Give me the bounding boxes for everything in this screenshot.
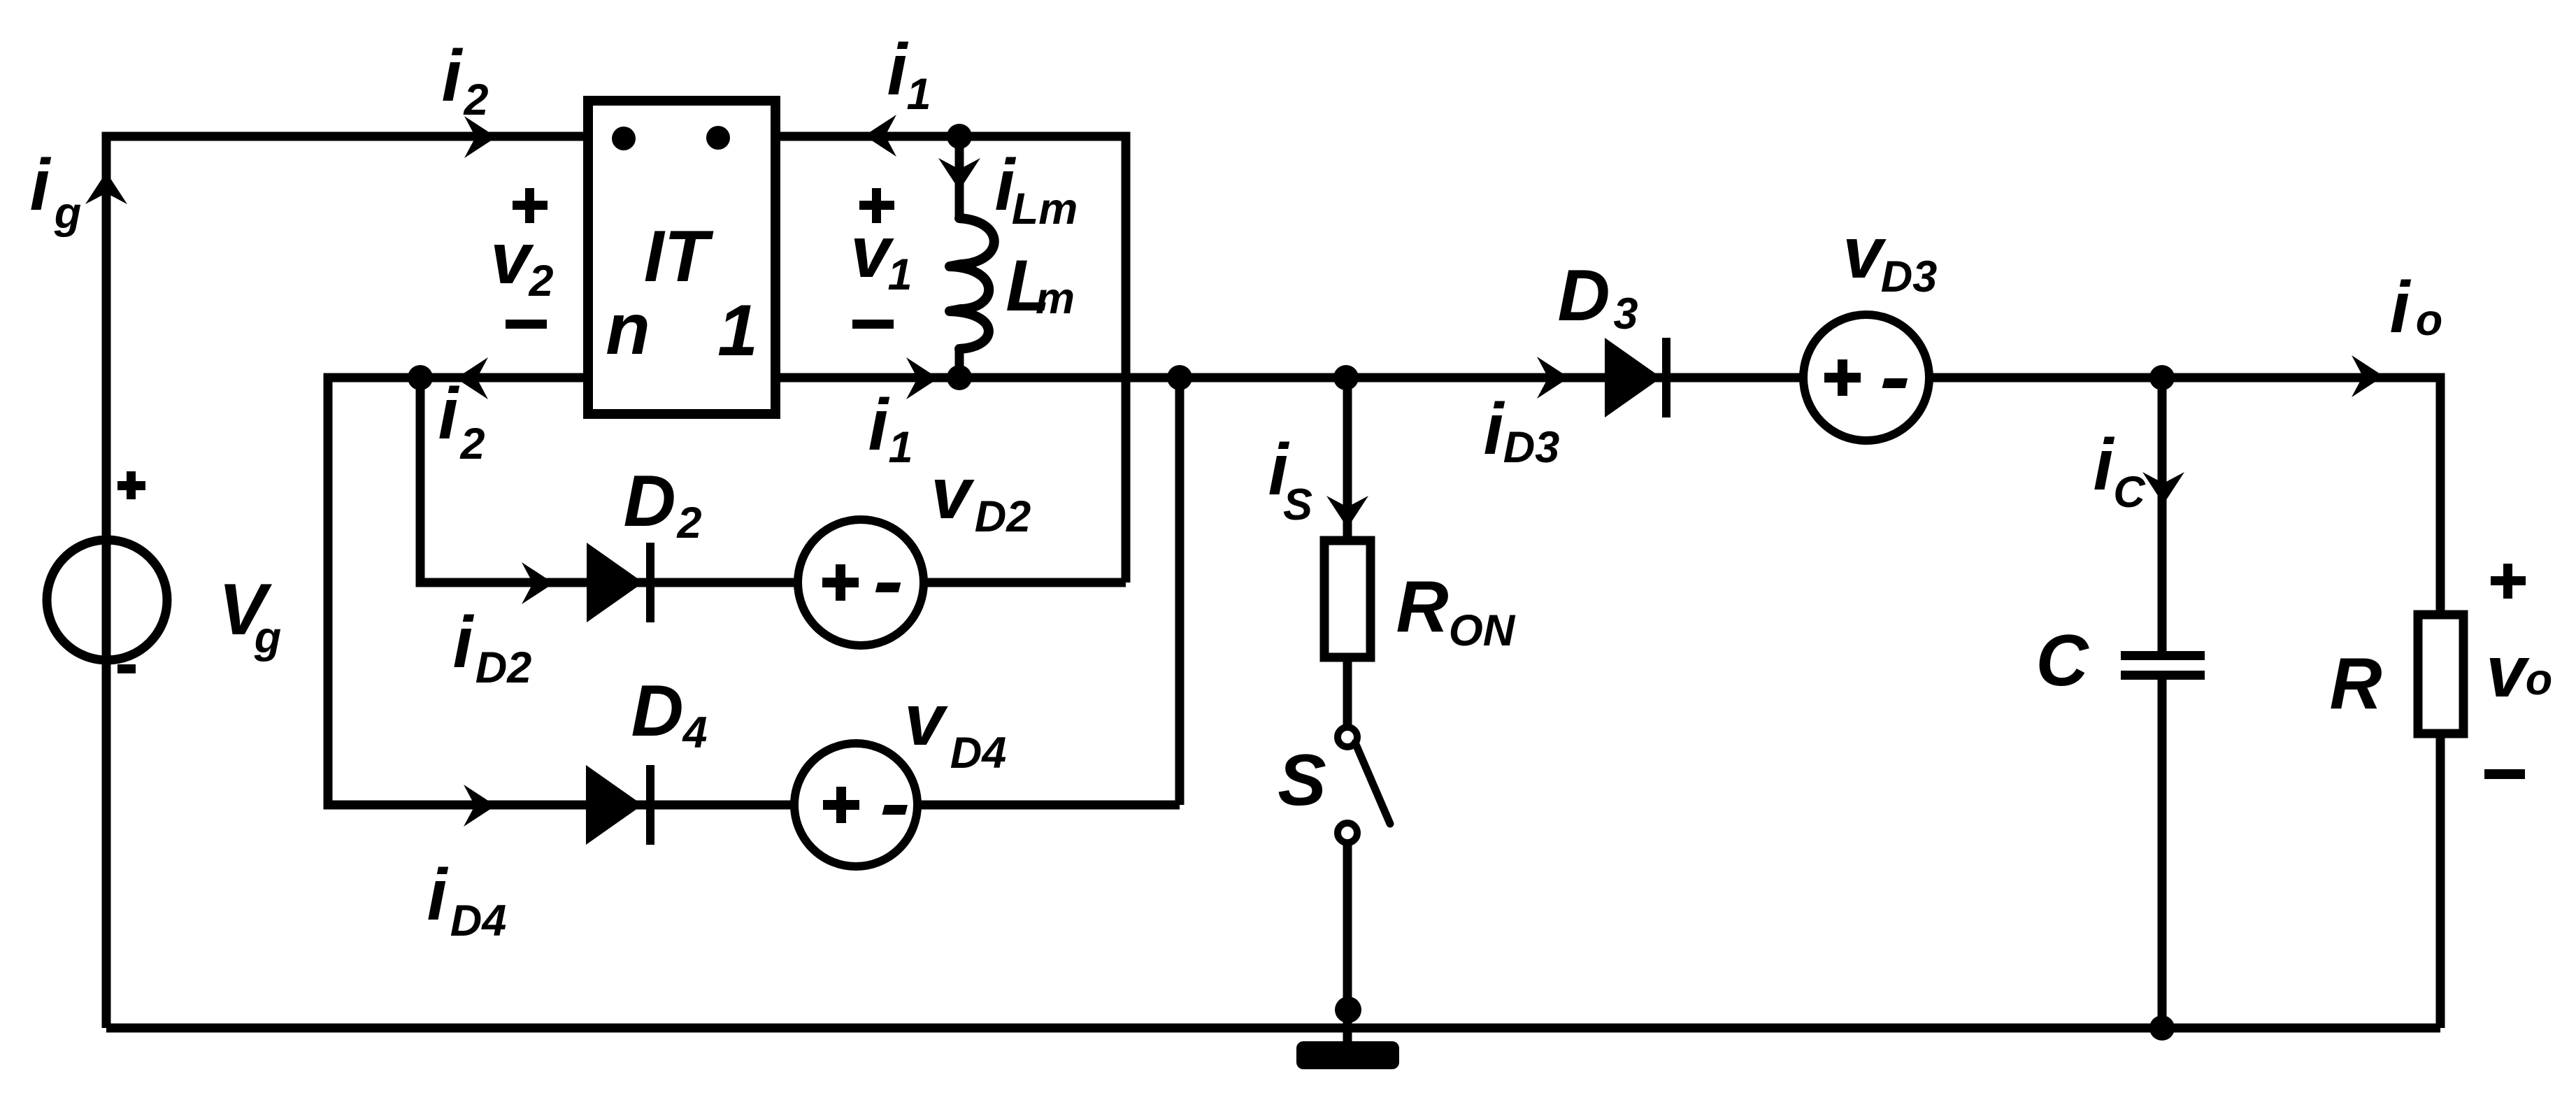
junction node switch ground — [1335, 997, 1361, 1023]
resistor RON — [1324, 541, 1371, 657]
vD3 plus — [1824, 359, 1861, 396]
svg-text:i: i — [442, 36, 464, 117]
voltage source Vg circle — [47, 540, 167, 660]
svg-text:n: n — [606, 289, 650, 370]
arrow i1 top — [864, 115, 896, 157]
svg-text:1: 1 — [717, 290, 758, 371]
label D3 — [1557, 255, 1638, 338]
svg-text:S: S — [1283, 480, 1312, 529]
svg-text:v: v — [931, 453, 975, 534]
junction node capacitor bottom — [2149, 1015, 2175, 1041]
arrow i1 bottom — [906, 357, 938, 399]
svg-text:D4: D4 — [950, 729, 1007, 778]
svg-text:C: C — [2035, 620, 2089, 701]
vD4 plus — [823, 787, 859, 823]
transformer IT box — [588, 101, 775, 414]
svg-text:g: g — [54, 189, 81, 238]
svg-text:IT: IT — [644, 216, 714, 297]
arrow iD3 — [1537, 357, 1569, 399]
svg-text:g: g — [254, 613, 281, 662]
svg-text:i: i — [887, 29, 909, 110]
Vg plus — [117, 471, 145, 499]
label i1 top — [887, 29, 931, 119]
switch S bottom contact — [1338, 823, 1357, 843]
wire right below R — [2436, 734, 2445, 1028]
plus v2 — [513, 188, 548, 223]
source vD4 circle — [794, 743, 917, 866]
arrow ig — [85, 172, 127, 204]
arrow iS — [1326, 496, 1368, 528]
svg-text:4: 4 — [681, 708, 707, 757]
label Vg — [218, 569, 281, 662]
wire through Vg — [102, 540, 111, 660]
svg-text:D4: D4 — [450, 897, 507, 945]
switch S top contact — [1338, 727, 1357, 747]
svg-text:i: i — [2094, 424, 2115, 506]
svg-text:2: 2 — [528, 257, 553, 306]
junction node capacitor top — [2149, 365, 2175, 390]
label vD3 — [1842, 213, 1937, 301]
wire Lm branch upper — [955, 136, 964, 220]
svg-text:S: S — [1278, 740, 1326, 821]
junction node D4 branch — [1167, 365, 1192, 390]
source vD2 circle — [798, 520, 924, 645]
arrow iD2 — [522, 562, 554, 604]
label v1 — [850, 212, 912, 299]
svg-text:i: i — [30, 145, 52, 226]
svg-text:v: v — [904, 680, 948, 761]
label io — [2390, 267, 2443, 348]
svg-text:1: 1 — [887, 250, 912, 299]
diode D3 — [1605, 338, 1670, 417]
capacitor C plates — [2121, 651, 2205, 680]
wire D2 branch left — [420, 378, 798, 583]
svg-text:R: R — [1396, 566, 1448, 648]
label D2 — [623, 461, 701, 548]
label i1 bottom — [868, 385, 913, 472]
vD3 minus — [1882, 378, 1908, 388]
arrow iC — [2142, 472, 2184, 504]
wire primary bottom from box to vD3 source — [775, 373, 1803, 383]
svg-text:i: i — [438, 373, 460, 455]
label vD4 — [904, 680, 1006, 778]
svg-text:1: 1 — [906, 70, 931, 119]
wire D4 junction vertical — [1175, 378, 1185, 805]
label Lm — [1006, 245, 1075, 327]
wire top right: transformer to corner down to D2 branch right end — [774, 136, 1126, 583]
svg-text:m: m — [1036, 274, 1075, 323]
minus v1 — [852, 320, 894, 329]
label iD3 — [1484, 389, 1560, 472]
arrow io — [2352, 355, 2384, 397]
label iC — [2094, 424, 2147, 517]
svg-text:D3: D3 — [1503, 423, 1560, 472]
svg-text:D: D — [623, 461, 675, 542]
svg-text:D: D — [1557, 255, 1610, 336]
wire main from vD3 to right corner down to R — [1929, 378, 2440, 615]
wire capacitor branch lower — [2158, 680, 2167, 1028]
Vg minus — [117, 664, 136, 673]
label i2 top — [442, 36, 489, 124]
svg-text:i: i — [2390, 267, 2412, 348]
svg-text:o: o — [2526, 655, 2552, 704]
vD2 plus — [822, 564, 859, 601]
junction node switch branch — [1333, 365, 1359, 390]
arrow iLm — [938, 158, 980, 190]
svg-text:3: 3 — [1613, 290, 1638, 338]
transformer dot primary — [706, 126, 730, 150]
plus v1 — [859, 188, 894, 223]
wire Lm branch lower — [955, 348, 964, 378]
label i2 bottom — [438, 373, 485, 469]
source vD3 circle — [1803, 315, 1929, 441]
wire D2 branch right — [924, 578, 1126, 587]
junction node top Lm — [947, 124, 972, 149]
label RON — [1396, 566, 1515, 655]
plus vo — [2491, 564, 2526, 599]
vD4 minus — [882, 805, 908, 815]
wire switch branch RON to switch — [1343, 657, 1352, 727]
wire capacitor branch upper — [2158, 378, 2167, 651]
label iD2 — [453, 602, 532, 692]
ground — [1296, 1041, 1399, 1069]
resistor R — [2418, 615, 2463, 734]
arrow i2 top — [464, 116, 496, 158]
svg-text:i: i — [1484, 389, 1505, 470]
minus v2 — [506, 320, 547, 329]
svg-text:i: i — [453, 602, 475, 683]
svg-text:v: v — [2486, 631, 2530, 713]
svg-text:2: 2 — [676, 499, 701, 548]
label iS — [1268, 429, 1312, 529]
svg-text:R: R — [2329, 643, 2382, 724]
arrow i2 bottom — [456, 357, 488, 399]
inductor Lm coil — [950, 218, 994, 349]
wire switch to ground — [1343, 843, 1352, 1041]
svg-text:v: v — [490, 218, 534, 299]
label vD2 — [931, 453, 1031, 541]
svg-text:v: v — [1842, 213, 1887, 294]
label v2 — [490, 218, 553, 306]
svg-text:i: i — [868, 385, 890, 466]
junction node bottom Lm — [947, 365, 972, 390]
wire D4 branch right — [917, 801, 1180, 810]
svg-text:Lm: Lm — [1012, 185, 1078, 234]
minus vo — [2484, 769, 2525, 779]
svg-text:D: D — [631, 671, 683, 752]
svg-text:D2: D2 — [975, 492, 1031, 541]
wire bottom — [106, 1024, 2440, 1033]
svg-text:o: o — [2416, 296, 2442, 345]
wire switch branch upper — [1343, 378, 1352, 541]
diode D4 — [586, 765, 654, 845]
label iD4 — [427, 855, 507, 945]
svg-text:2: 2 — [459, 420, 485, 469]
svg-text:D2: D2 — [475, 643, 532, 692]
diode D2 — [587, 543, 654, 622]
arrow iD4 — [464, 785, 496, 827]
transformer dot secondary — [612, 127, 636, 150]
vD2 minus — [875, 583, 901, 592]
svg-text:i: i — [427, 855, 449, 936]
svg-text:C: C — [2113, 468, 2146, 517]
svg-text:ON: ON — [1449, 606, 1516, 655]
junction node secondary-D2 — [408, 365, 433, 390]
label vo — [2486, 631, 2552, 713]
svg-text:D3: D3 — [1881, 252, 1938, 301]
label iLm — [995, 145, 1078, 234]
label ig — [30, 145, 82, 238]
svg-text:1: 1 — [888, 423, 913, 472]
wire top loop: left corner, top wire to transformer — [106, 136, 589, 1028]
label D4 — [631, 671, 707, 757]
switch S lever — [1355, 743, 1390, 824]
svg-text:2: 2 — [463, 76, 488, 124]
wire secondary bottom: from box left to corner down to D4 row start — [328, 378, 794, 805]
